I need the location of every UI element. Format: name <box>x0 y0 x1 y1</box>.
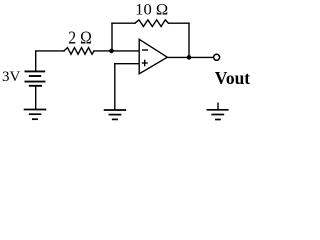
wire battery negative to ground <box>35 86 37 109</box>
wire noninverting input down to ground <box>114 64 116 110</box>
wire battery top to 2-ohm resistor <box>36 51 64 71</box>
junction node at output <box>187 55 192 60</box>
wire feedback left vertical <box>111 23 113 51</box>
ground under noninverting input <box>104 110 127 119</box>
wire feedback right vertical <box>188 23 190 57</box>
resistor R1 2-ohm zigzag <box>64 48 94 55</box>
ground under battery <box>24 110 47 120</box>
output terminal circle <box>214 54 220 60</box>
svg-text:3V: 3V <box>2 69 21 85</box>
resistor R2 10-ohm zigzag <box>135 20 169 27</box>
wire op-amp noninverting input <box>115 63 139 65</box>
wire 2-ohm to op-amp inverting input <box>94 50 139 52</box>
op-amp U1 triangle <box>139 39 167 74</box>
junction node at inverting input <box>109 49 114 54</box>
ground symbol under Vout <box>207 103 229 120</box>
wire feedback top left segment <box>112 22 135 24</box>
wire feedback top right segment <box>169 22 190 24</box>
battery V1 3V <box>25 71 46 85</box>
svg-text:2 Ω: 2 Ω <box>68 27 92 47</box>
wire op-amp output to terminal <box>167 56 213 58</box>
svg-text:10 Ω: 10 Ω <box>135 2 168 19</box>
op-amp plus sign <box>142 60 148 67</box>
svg-text:Vout: Vout <box>215 68 251 88</box>
op-amp minus sign <box>142 49 148 51</box>
